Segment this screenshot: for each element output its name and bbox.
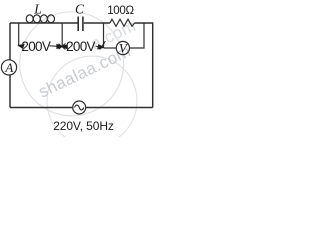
tick node between L and C — [61, 23, 63, 47]
svg-text:200V: 200V — [21, 39, 50, 54]
wire capacitor to resistor — [84, 22, 110, 24]
left wire below ammeter — [9, 75, 11, 108]
dimension arrow right (200V across C) — [59, 41, 106, 49]
watermark circle 2 — [47, 56, 137, 146]
resistor 100ohm zigzag — [110, 19, 135, 26]
left wire above ammeter — [9, 23, 11, 60]
svg-text:220V, 50Hz: 220V, 50Hz — [53, 119, 114, 133]
bottom wire right of source — [86, 107, 153, 109]
svg-text:100Ω: 100Ω — [107, 5, 134, 17]
capacitor C — [78, 17, 83, 32]
tick node between C and R (voltmeter left riser) — [103, 23, 105, 48]
voltmeter V — [116, 41, 129, 54]
tick node left of L — [18, 23, 20, 46]
svg-text:C: C — [75, 2, 85, 17]
voltmeter right lead — [130, 23, 144, 48]
AC source — [73, 101, 86, 114]
bottom wire left of source — [10, 107, 73, 109]
watermark circle 1 — [20, 12, 124, 116]
ammeter A — [1, 60, 16, 75]
wire resistor to top-right corner and right side — [135, 23, 153, 108]
voltmeter left lead — [104, 47, 117, 49]
svg-text:A: A — [4, 60, 13, 75]
svg-text:200V: 200V — [66, 39, 95, 54]
inductor L — [26, 15, 54, 23]
svg-text:L: L — [33, 2, 42, 17]
dimension arrow left (200V across L) — [19, 44, 63, 48]
wire top (left corner through inductor to capacitor) — [10, 22, 78, 24]
